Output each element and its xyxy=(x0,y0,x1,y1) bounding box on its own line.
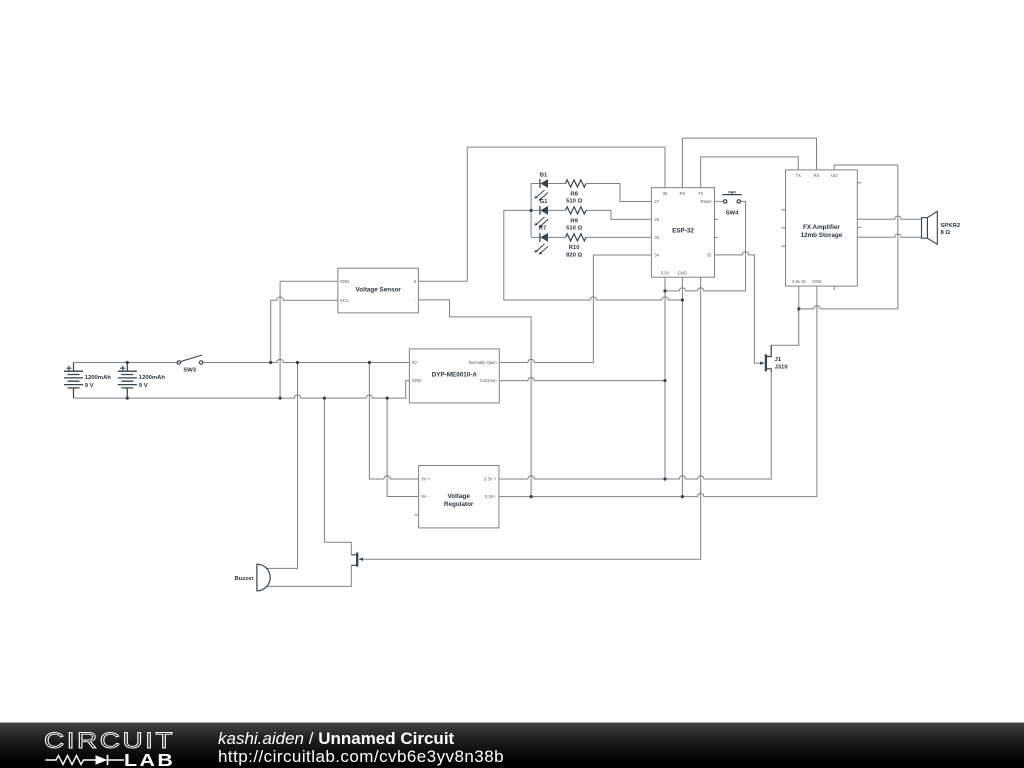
svg-text:9V -: 9V - xyxy=(421,494,429,499)
svg-text:Buzzer: Buzzer xyxy=(235,576,255,582)
box ESP-32 xyxy=(651,188,714,278)
wire VS GND to battery minus rail xyxy=(280,281,338,398)
svg-text:25: 25 xyxy=(654,217,659,222)
svg-text:RX: RX xyxy=(679,191,685,196)
svg-text:GND: GND xyxy=(812,279,821,284)
battery V2 1200mAh 9V xyxy=(118,363,137,399)
svg-text:12mb Storage: 12mb Storage xyxy=(801,232,843,239)
svg-text:9 V: 9 V xyxy=(139,383,148,389)
stub FX bottom pin xyxy=(833,286,835,290)
svg-text:J1: J1 xyxy=(775,357,782,363)
svg-text:R9: R9 xyxy=(570,219,578,225)
box DYP-ME0010-A xyxy=(409,349,499,403)
svg-text:33: 33 xyxy=(707,253,712,258)
svg-text:32: 32 xyxy=(654,235,659,240)
stub FX left pins xyxy=(782,210,786,247)
wire DYP Common to ESP 3.3V drop (hop at 531) xyxy=(499,377,665,380)
svg-text:R7: R7 xyxy=(539,226,547,232)
svg-text:1200mAh: 1200mAh xyxy=(85,375,112,381)
wire battery bottom rail to DYP GND (hops at 297.5 and 369.4) xyxy=(74,381,410,399)
svg-text:VCC: VCC xyxy=(340,298,349,303)
wire 9V rail to VReg 9V+ (hop at 387.1) xyxy=(369,363,418,480)
BOXES xyxy=(338,170,857,528)
svg-text:UG: UG xyxy=(831,173,837,178)
wire VS VCC to switched 9V rail xyxy=(271,297,338,363)
resistor R9 xyxy=(566,207,587,214)
wire Q drain to GND rail xyxy=(324,398,351,555)
svg-text:TX: TX xyxy=(796,173,802,178)
wire buzzer minus to Q source xyxy=(266,565,351,586)
logo diode xyxy=(96,756,108,765)
wire ESP RX to FX RX xyxy=(682,138,816,188)
wire SW3 to DYP 9V (hop over VS-GND drop at x=280) xyxy=(203,359,410,362)
svg-text:SW3: SW3 xyxy=(183,367,196,373)
svg-text:9V +: 9V + xyxy=(421,477,430,482)
wire ESP GND pin drop xyxy=(681,277,683,496)
wire LED stubs xyxy=(531,184,540,238)
wire VS minus to 3.3V- net xyxy=(418,300,531,497)
wire SW4 to ESP 3.3V node (hops at 682,700) xyxy=(665,201,746,291)
stub VReg left pin xyxy=(415,514,419,516)
wire J1 drain to FX power node xyxy=(771,309,799,345)
box Voltage Sensor xyxy=(338,268,419,313)
wire VReg 3.3V- net to FX GND (hop at 700) xyxy=(499,286,817,497)
box FX Amplifier xyxy=(786,170,858,286)
svg-text:3.3V: 3.3V xyxy=(661,270,670,275)
svg-text:G1: G1 xyxy=(540,199,549,205)
svg-text:1200mAh: 1200mAh xyxy=(139,375,166,381)
svg-text:Voltage: Voltage xyxy=(448,493,471,500)
resistor R10 xyxy=(566,234,587,241)
resistor R8 xyxy=(566,180,587,187)
svg-text:GND: GND xyxy=(340,279,349,284)
svg-text:9 V: 9 V xyxy=(85,383,94,389)
svg-text:SPKR2: SPKR2 xyxy=(941,223,961,229)
speaker SPKR2 8ohm xyxy=(922,211,938,244)
svg-text:SW4: SW4 xyxy=(726,211,739,217)
wire battery top rail to SW3 xyxy=(74,362,178,364)
wire ESP aux pin to Q-gate xyxy=(363,277,701,559)
svg-text:GND: GND xyxy=(678,270,687,275)
stub FX right pins xyxy=(857,183,861,228)
svg-text:Reset: Reset xyxy=(701,199,713,204)
wire FX 3-5v IN pin drop xyxy=(798,286,800,309)
switch SW3 xyxy=(177,355,203,364)
wire GND rail to VReg 9V- xyxy=(387,398,419,496)
svg-text:Voltage Sensor: Voltage Sensor xyxy=(356,286,402,293)
svg-text:3.3V +: 3.3V + xyxy=(484,477,497,482)
svg-text:J310: J310 xyxy=(775,364,789,370)
wire LED B1 to R8 to ESP pin 27 xyxy=(548,184,652,202)
wire buzzer plus to 9V rail xyxy=(266,363,297,569)
svg-text:510 Ω: 510 Ω xyxy=(566,226,582,232)
svg-text:35: 35 xyxy=(663,191,668,196)
wire VS S output to ESP-32 pin 35 xyxy=(418,147,665,281)
svg-text:8 Ω: 8 Ω xyxy=(941,230,951,236)
svg-text:9V: 9V xyxy=(412,360,417,365)
LED B1 xyxy=(534,179,548,201)
svg-text:Normally Open: Normally Open xyxy=(469,360,498,365)
transistor J1 J310 (n-JFET) xyxy=(760,345,771,371)
svg-text:34: 34 xyxy=(654,253,659,258)
wire DYP Normally-Open to ESP-32 pin 34 (hop at 531) xyxy=(499,255,651,363)
wire VReg 3.3V+ net to J1 source (hops at 531,682,700) xyxy=(499,372,771,479)
svg-text:ESP-32: ESP-32 xyxy=(672,228,694,235)
svg-text:27: 27 xyxy=(654,199,659,204)
wire FX out+ to SPKR2 (hop at 897.9) xyxy=(857,216,921,219)
wire LED cathode rail xyxy=(530,184,532,238)
svg-text:3-5v IN: 3-5v IN xyxy=(792,279,806,284)
box Voltage Regulator xyxy=(419,466,499,528)
svg-text:FX Amplifier: FX Amplifier xyxy=(803,224,840,231)
svg-text:B1: B1 xyxy=(540,172,548,178)
svg-text:TX: TX xyxy=(698,191,704,196)
LED G1 xyxy=(534,206,548,228)
wire FX UG loop to 3-5v IN node (hop at 816.9) xyxy=(799,165,898,309)
svg-text:R8: R8 xyxy=(570,191,578,197)
svg-text:3.3V -: 3.3V - xyxy=(485,494,497,499)
logo resistor zigzag xyxy=(46,756,96,765)
transistor Q (n-JFET, buzzer driver) xyxy=(351,553,363,567)
wire LED G1 to R9 to ESP pin 25 xyxy=(548,210,652,219)
wire ESP TX to FX TX xyxy=(701,157,799,188)
svg-text:RX: RX xyxy=(814,173,820,178)
svg-text:R10: R10 xyxy=(569,245,581,251)
wire ESP Reset to SW4 xyxy=(715,200,724,202)
svg-text:Regulator: Regulator xyxy=(444,501,474,508)
wire LED R7 to R10 to ESP pin 32 xyxy=(548,236,652,238)
junction dots xyxy=(126,209,801,498)
pushbutton SW4 xyxy=(722,192,741,203)
svg-text:Common: Common xyxy=(480,378,498,383)
buzzer xyxy=(257,564,270,591)
svg-text:820 Ω: 820 Ω xyxy=(566,252,582,258)
wire ESP 3.3V pin drop xyxy=(664,277,666,479)
battery V1 1200mAh 9V xyxy=(64,363,83,399)
wire LED cathode rail to ESP GND drop (hops at 593,665) xyxy=(504,210,683,300)
svg-text:510 Ω: 510 Ω xyxy=(566,199,582,205)
LED R7 xyxy=(534,233,548,255)
stub ESP right pins xyxy=(715,219,719,237)
svg-text:GND: GND xyxy=(412,378,421,383)
svg-text:DYP-ME0010-A: DYP-ME0010-A xyxy=(432,371,478,378)
wire FX out- to SPKR2 (hop at 897.9) xyxy=(857,234,921,237)
wire ESP pin 33 to J1 gate (hop at 745.5) xyxy=(715,252,761,363)
svg-text:S: S xyxy=(414,279,417,284)
